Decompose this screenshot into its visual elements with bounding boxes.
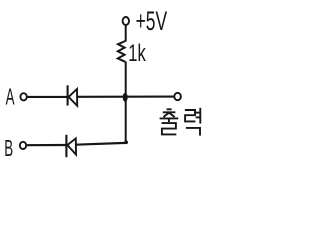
wire diode D1 to output terminal (through node) (77, 96, 174, 98)
junction node dot (123, 93, 128, 102)
diode D2 triangle (67, 138, 76, 154)
resistor 1k (zigzag) (118, 41, 126, 62)
wire from resistor down through node to corner (125, 62, 127, 144)
svg-text:1k: 1k (128, 40, 146, 67)
svg-text:B: B (4, 135, 13, 161)
wire from +5V terminal to resistor R (125, 25, 127, 41)
svg-text:A: A (6, 84, 15, 110)
corner junction blob (124, 140, 128, 144)
wire A terminal to diode D1 (27, 96, 67, 98)
output terminal (open circle) (174, 93, 181, 100)
wire B terminal to diode D2 (27, 144, 67, 146)
svg-text:+5V: +5V (136, 5, 168, 36)
label 출력 (output), glyph 력 drawn as strokes (185, 108, 200, 136)
diode D1 triangle (69, 89, 78, 106)
label 출력 (output), glyph 출 drawn as strokes (160, 109, 179, 134)
terminal A (open circle) (20, 93, 26, 100)
terminal B (open circle) (20, 142, 26, 149)
diode D2 cathode bar (65, 135, 67, 157)
terminal +5V (open circle) (123, 17, 129, 25)
diode D1 cathode bar (67, 85, 69, 105)
wire diode D2 to corner below node (76, 143, 126, 145)
